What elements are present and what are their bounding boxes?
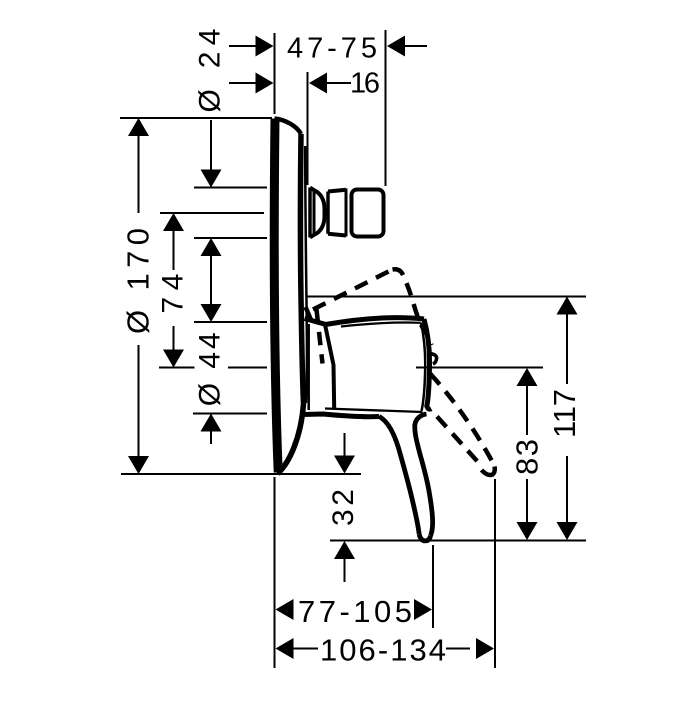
dimension 74 (157, 213, 190, 368)
wall extension line bottom (x=274) (274, 477, 276, 668)
dimension 106-134 (276, 633, 495, 668)
svg-text:16: 16 (350, 68, 380, 100)
svg-text:Ø 170: Ø 170 (121, 228, 156, 334)
handle axis extension line left (y=368) (159, 367, 195, 369)
dashed lever (raised position) (306, 269, 432, 363)
lever tip extension line (y=540.5) (330, 540, 586, 542)
svg-text:117: 117 (547, 389, 582, 438)
knob top extension line (y=187.5) (194, 187, 267, 189)
knob bottom extension line (y=238) (194, 237, 267, 239)
dashed-lever tip extension line (x=495) (494, 479, 496, 668)
wall extension line top (x=274) (274, 33, 276, 114)
svg-text:47-75: 47-75 (287, 33, 377, 65)
dimension 117 (547, 297, 582, 541)
handle bottom extension line (y=413.5) (193, 413, 267, 415)
handle lever (down position) (379, 414, 433, 541)
upper-lever extension line right (y=296.5) (307, 296, 586, 298)
knob axis extension line (y=213) (160, 212, 264, 214)
svg-text:77-105: 77-105 (298, 594, 412, 629)
dimension 77-105 (276, 594, 433, 629)
svg-text:83: 83 (510, 439, 545, 475)
dimension 32 (327, 433, 360, 582)
control knob (310, 188, 384, 238)
dimension 83 (510, 368, 545, 540)
handle axis extension line right (y=368) (416, 367, 543, 369)
plate top extension line (y=118) (120, 117, 272, 119)
dashed lever (lowered position) (431, 374, 495, 475)
plate front extension line (x=307) (307, 72, 309, 185)
plate bottom extension line (y=474) (121, 473, 361, 475)
escutcheon plate (274, 119, 307, 474)
dimension 47-75 (229, 33, 427, 65)
dimension 16 (229, 68, 380, 100)
handle top extension line (y=322) (194, 321, 267, 323)
lever extension line (x=433) (432, 545, 434, 628)
dimension Ø44 (194, 304, 227, 444)
knob face extension line (x=385.5) (385, 30, 387, 186)
svg-text:Ø 44: Ø 44 (194, 332, 227, 406)
dimension Ø170 (121, 118, 156, 474)
handle body (302, 318, 437, 417)
dimension Ø24 (194, 29, 227, 305)
